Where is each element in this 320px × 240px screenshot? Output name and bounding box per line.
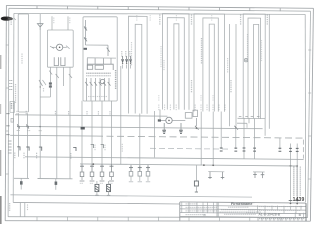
wire K1 feed right <box>68 16 70 30</box>
label F3 <box>36 153 38 159</box>
contact K2.3 <box>107 45 110 56</box>
plus terminal <box>244 59 247 62</box>
revision strip top <box>13 202 180 204</box>
wire drops to buses <box>131 110 297 204</box>
title block small text rows <box>186 204 217 215</box>
wire M1 right <box>172 119 185 121</box>
coil bracket K2 <box>87 64 113 70</box>
terminal strip X1 <box>18 14 28 112</box>
cable loop U-D mid <box>248 18 261 119</box>
title block tiny cells text <box>259 207 302 211</box>
loop label U-A <box>137 15 212 25</box>
drawing area border <box>13 13 305 202</box>
ground hatch G1 <box>162 123 166 133</box>
binder hole mark <box>1 17 13 21</box>
contact K1 right <box>63 46 70 49</box>
margin fuse symbol <box>11 119 13 123</box>
svg-text:Firmenname: Firmenname <box>231 202 252 206</box>
contact bank K2 <box>85 78 110 101</box>
bus line 15 <box>17 126 263 128</box>
label F4 <box>70 153 72 159</box>
revision strip divider <box>20 203 25 217</box>
address text <box>246 210 255 212</box>
wire X6 corner <box>264 119 266 136</box>
bus label 15 <box>6 125 9 127</box>
sheet tab cells <box>258 218 304 221</box>
title block columns right <box>258 205 304 217</box>
svg-text:A1-B-39428-B: A1-B-39428-B <box>259 212 281 216</box>
label mid columns <box>16 34 248 103</box>
wire W-229 <box>229 24 231 126</box>
junction K2 dark <box>84 48 87 50</box>
label K2 row <box>88 96 107 98</box>
fuse F4 <box>73 147 76 151</box>
drawing number <box>259 212 281 216</box>
fuse pair F8 <box>220 148 223 151</box>
label F2 <box>23 153 25 159</box>
wire W1 <box>39 14 41 30</box>
cable loop U-C outer <box>194 14 224 112</box>
left margin label E <box>9 203 11 211</box>
fuse pair F13 <box>289 148 292 151</box>
bus K2 internal <box>87 57 116 59</box>
cable loop U-B outer <box>163 14 190 110</box>
loop label U-D2 <box>266 15 268 25</box>
cable loop U-C mid <box>203 18 218 112</box>
resistor R2 <box>107 181 111 195</box>
fuse pair F11 <box>253 148 256 151</box>
junction blob B2 <box>81 127 85 130</box>
junction dot B2a <box>39 126 41 128</box>
wire K1 out3 <box>62 67 64 86</box>
cable loop U-B inner <box>174 24 179 110</box>
fuse pair F9 <box>234 148 237 151</box>
bus corner right <box>302 140 304 159</box>
motor M1 <box>158 117 172 123</box>
cable loop U-B mid <box>167 18 184 110</box>
wire left drop 1 <box>18 113 20 157</box>
switch contact S2 <box>39 80 43 88</box>
bus line 57 <box>10 195 252 197</box>
connector X3 labels <box>122 51 130 57</box>
ground rail 2 <box>38 178 73 180</box>
bus label 30 <box>6 113 9 115</box>
title block company name <box>231 202 252 206</box>
indicator K2 <box>100 79 104 83</box>
connector row X9 <box>129 166 150 182</box>
connector stubs X10 <box>208 172 224 180</box>
wire left drop 4 <box>56 114 58 179</box>
label F1 <box>14 153 16 159</box>
wire W2 <box>39 27 41 114</box>
cable loop U-C inner <box>209 24 214 111</box>
title block columns left <box>182 202 218 217</box>
contact K2.1 <box>84 20 87 45</box>
revision letter cell <box>299 213 302 217</box>
sheet index list <box>294 167 301 196</box>
lamp H1 <box>56 44 62 50</box>
cable loop U-D outer <box>243 14 265 119</box>
ground hatch G2 <box>179 123 183 133</box>
junction pair right <box>289 200 299 204</box>
frame column tick marks <box>37 6 280 11</box>
wire left drop 3 <box>39 114 41 179</box>
sheet number 1439 <box>293 197 305 203</box>
cable loop U-D inner <box>254 24 259 118</box>
relay K2 outline <box>83 17 117 101</box>
label K2 pins <box>115 70 117 89</box>
revision strip text <box>27 204 29 210</box>
left margin text block D <box>8 141 11 153</box>
left margin label A <box>11 17 16 25</box>
connector box X4 <box>185 113 192 119</box>
bus line 31 dashed <box>96 136 303 138</box>
left margin table C <box>10 102 14 113</box>
contact Y1 <box>195 118 199 130</box>
wire K1 out4 <box>69 67 72 113</box>
contact K1 left <box>50 46 56 48</box>
coil K2 box2 <box>95 65 103 69</box>
contact text row K2 <box>86 73 111 76</box>
title block description lines <box>220 207 261 214</box>
wire M1 left <box>161 119 166 121</box>
bus15 crossing labels <box>17 130 42 132</box>
wire K2 out4 <box>111 101 113 164</box>
contact Y2 <box>234 126 238 130</box>
bus line 31 <box>10 134 96 137</box>
wire left drop 5 <box>69 114 71 179</box>
switch contact S1 <box>43 80 47 92</box>
coil K1a <box>54 57 58 65</box>
scan edge artifact left <box>0 55 2 224</box>
junction dots B6 <box>92 163 298 167</box>
fuse pair F10 <box>243 148 246 151</box>
wires into coil block <box>87 58 111 64</box>
left margin label B <box>9 81 12 90</box>
switch on bus15 A <box>17 124 20 128</box>
bus line 58b <box>80 164 297 166</box>
loop label U-C <box>191 15 193 25</box>
buzzer B1 <box>194 165 198 192</box>
wire K2 bridge <box>85 44 108 46</box>
fuse F3 <box>39 147 42 151</box>
bus label 31 <box>6 134 9 136</box>
resistor R1 <box>95 181 99 195</box>
wire labels mid column <box>164 38 262 73</box>
frame side tick marks <box>6 45 311 179</box>
svg-text:1439: 1439 <box>293 197 305 203</box>
wire K1 feed left <box>52 16 54 30</box>
fuse F1 <box>17 147 20 151</box>
wire W-269 <box>268 14 270 129</box>
bus line 30 <box>15 115 168 116</box>
ground G4 <box>55 179 58 190</box>
connector box X5 <box>193 110 198 116</box>
frame bottom tick marks <box>37 217 280 221</box>
switch on bus15 B <box>26 124 29 128</box>
wire K2 out1 <box>81 101 83 164</box>
terminal strip X1 label <box>21 54 23 64</box>
fuse pair F14 <box>296 148 299 151</box>
contact K2.2 <box>84 37 87 41</box>
wire K1 out1 <box>40 67 52 97</box>
connector stubs X11 <box>253 172 265 178</box>
ground G3 <box>20 178 23 189</box>
cable loop U-A inner <box>135 24 142 113</box>
wire left drop 2 <box>27 113 29 178</box>
ground rail 1 <box>14 177 29 179</box>
title block grid <box>180 202 306 221</box>
bus segment 58 <box>150 147 230 150</box>
relay K1 outline <box>47 30 73 67</box>
loop label U-D <box>240 15 242 25</box>
cable loop U-A outer <box>129 16 148 114</box>
terminal rail X6 <box>238 116 266 118</box>
coil K1b <box>61 57 65 65</box>
fuse F2 <box>26 147 29 151</box>
fuse pair F12 <box>279 148 282 151</box>
bus line 56 <box>25 157 304 160</box>
wire number labels above bus <box>159 95 225 110</box>
wire K2 out2 <box>91 101 95 164</box>
wire K1 out2 <box>56 67 59 113</box>
label wire codes top <box>17 111 110 115</box>
connector row X8 <box>80 164 114 183</box>
connector X3 pins <box>122 56 132 69</box>
coil K2 box <box>87 65 92 69</box>
wire W-236 <box>235 24 237 126</box>
wire K2 out5 <box>121 66 123 165</box>
plug symbol X2 <box>37 24 43 27</box>
terminal rail X7 <box>237 123 247 128</box>
wire K2 out3 <box>101 101 105 164</box>
